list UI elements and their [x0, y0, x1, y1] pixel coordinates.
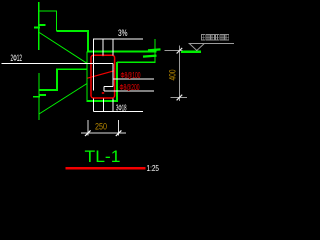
- node landing slab soffit: [117, 61, 155, 63]
- svg-text:2Φ12: 2Φ12: [11, 53, 23, 63]
- node beam outline left edge: [86, 52, 88, 102]
- wire flight top surface diagonal: [39, 32, 88, 63]
- wire right leader 1: [113, 78, 154, 80]
- node red bar dot bottom: [102, 92, 104, 94]
- wire top rebar ticks: [2, 39, 154, 112]
- node bottom step outline: [39, 69, 88, 90]
- node title underline red: [66, 167, 146, 170]
- node beam outline bottom edge: [87, 100, 119, 102]
- node break tick upper on centerline (Z-jog): [33, 25, 46, 97]
- wire red slope line through beam: [87, 71, 114, 78]
- wire: stair break line upper segment: [38, 2, 40, 120]
- wire long left leader line: [2, 63, 113, 65]
- wire: stair break line lower segment: [38, 73, 40, 120]
- node top step outline: [39, 11, 89, 52]
- node red bar dot top: [102, 55, 104, 57]
- node dimension 250 tick slashes: [85, 130, 121, 136]
- node break dash upper: [148, 49, 161, 50]
- wire inner box right vertical: [112, 64, 114, 87]
- wire top leader line: [93, 38, 143, 40]
- svg-text:250: 250: [95, 121, 107, 131]
- node dimension 250 extension lines: [81, 120, 126, 135]
- node tiny grey annotation text (see platform structure): [202, 35, 229, 41]
- node vertical dimension 400: [165, 46, 188, 101]
- node elevation triangle: [189, 44, 205, 51]
- wire slab break line vertical: [154, 39, 156, 63]
- node break dash lower: [143, 56, 157, 57]
- wire bottom leader line: [93, 110, 143, 112]
- svg-text:Φ8@100: Φ8@100: [121, 70, 141, 80]
- wire inner box step vertical: [103, 87, 105, 91]
- circuit-free CAD stair beam detail drawing TL-1: [0, 0, 234, 200]
- node elevation marker line: [189, 43, 235, 45]
- wire dimension 250 line: [81, 132, 126, 134]
- node elevation green surface line: [181, 51, 201, 53]
- node break tick lower on centerline (Z-jog): [40, 94, 46, 96]
- svg-text:400: 400: [168, 70, 178, 81]
- svg-text:3%: 3%: [118, 28, 128, 38]
- svg-text:Φ8@200: Φ8@200: [120, 82, 140, 92]
- node beam outline right edge: [116, 62, 118, 102]
- svg-text:1:25: 1:25: [147, 163, 160, 173]
- wire right leader 2: [104, 90, 154, 92]
- svg-text:3Φ18: 3Φ18: [116, 103, 127, 113]
- wire inner box step horizontal: [104, 86, 113, 88]
- wire flight soffit diagonal: [39, 84, 87, 115]
- svg-text:TL-1: TL-1: [85, 148, 121, 166]
- node landing slab top line: [87, 51, 157, 53]
- wire bottom rebar ticks: [92, 99, 94, 112]
- component stirrup rectangle: [91, 55, 115, 98]
